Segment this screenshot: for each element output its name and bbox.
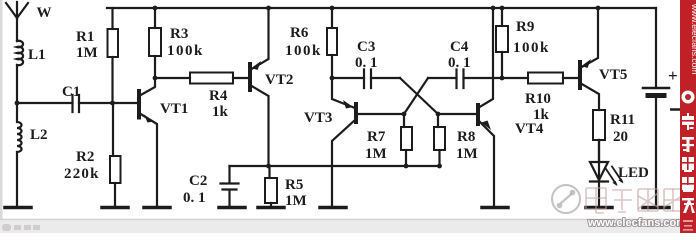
svg-text:R4: R4	[209, 88, 228, 104]
capacitor C3	[332, 70, 400, 89]
svg-text:L1: L1	[28, 47, 46, 63]
svg-text:R3: R3	[170, 26, 188, 42]
svg-text:+: +	[668, 66, 678, 85]
transistor VT4	[438, 8, 494, 207]
svg-text:C1: C1	[62, 84, 80, 100]
node VT5 emitter at rail	[596, 6, 601, 11]
svg-text:0. 1: 0. 1	[183, 190, 206, 206]
ground tick under R5	[258, 206, 284, 210]
svg-text:1M: 1M	[365, 146, 387, 162]
watermark strip bottom small marks	[683, 220, 693, 231]
svg-text:0. 1: 0. 1	[448, 55, 471, 71]
resistor R4 1k	[155, 73, 250, 84]
svg-text:C4: C4	[450, 39, 469, 55]
node R1 R2 bias junction	[110, 101, 115, 106]
svg-text:VT2: VT2	[265, 72, 293, 88]
faint watermark big characters (pseudo CJK outlines)	[586, 188, 696, 213]
capacitor C4	[428, 70, 502, 89]
LED emission arrows	[606, 167, 624, 187]
svg-text:W: W	[37, 5, 52, 21]
watermark red strip	[680, 0, 696, 233]
svg-text:R9: R9	[516, 19, 534, 35]
ground tick under VT3	[320, 206, 346, 210]
capacitor C1	[73, 95, 80, 112]
ground tick under L2	[5, 206, 31, 210]
svg-text:R6: R6	[290, 25, 309, 41]
node VT4 base	[436, 112, 441, 117]
svg-text:R2: R2	[76, 149, 94, 165]
svg-text:100k: 100k	[285, 43, 322, 59]
resistor R2 220k	[110, 103, 121, 207]
svg-text:220k: 220k	[64, 166, 100, 182]
svg-text:1k: 1k	[533, 107, 550, 123]
svg-text:VT4: VT4	[515, 121, 544, 137]
transistor VT1	[139, 78, 157, 207]
svg-text:0. 1: 0. 1	[355, 55, 378, 71]
antenna W	[6, 2, 28, 41]
svg-text:R7: R7	[367, 129, 386, 145]
svg-text:R8: R8	[457, 129, 475, 145]
ground tick under C2	[219, 206, 245, 210]
svg-text:R5: R5	[285, 177, 303, 193]
svg-text:VT3: VT3	[304, 110, 332, 126]
svg-text:1M: 1M	[456, 146, 478, 162]
faint bottom-left scan marks	[2, 224, 40, 231]
transistor VT5	[580, 8, 599, 110]
svg-text:100k: 100k	[513, 40, 550, 56]
ground tick under VT4 emitter	[482, 206, 508, 210]
svg-text:R11: R11	[610, 112, 635, 128]
node antenna junction	[15, 101, 20, 106]
node VT3 base	[402, 112, 407, 117]
node VT4 collector at rail	[491, 6, 496, 11]
scan left edge shading	[0, 0, 3, 233]
resistor R10 1k	[502, 73, 580, 84]
watermark strip logo	[682, 91, 695, 104]
wire collector bus y166	[230, 165, 440, 167]
scan bottom band	[0, 220, 696, 234]
wire C1 to VT1 base	[79, 102, 139, 104]
watermark strip chinese characters (vector pseudo glyphs)	[682, 113, 695, 213]
inductor L1	[17, 41, 23, 65]
ground tick under R2	[102, 206, 128, 210]
ground tick under LED	[586, 206, 612, 210]
resistor R9 100k	[496, 6, 508, 81]
resistor R8 1M	[434, 114, 445, 168]
svg-text:C2: C2	[189, 173, 207, 189]
svg-text:LED: LED	[618, 165, 649, 181]
resistor R5 1M	[265, 164, 277, 207]
node VT2 emitter at rail	[266, 6, 271, 11]
faint watermark logo circle	[552, 185, 580, 213]
wire junction to C1	[17, 102, 73, 104]
resistor R1 1M	[108, 8, 119, 103]
LED diode	[590, 140, 608, 207]
svg-text:1k: 1k	[212, 104, 229, 120]
svg-text:20: 20	[613, 129, 628, 145]
wire L1 to junction	[16, 65, 18, 103]
wire C3 to VT4 base diagonal	[400, 78, 438, 114]
transistor VT2	[250, 8, 269, 166]
capacitor C2	[221, 166, 239, 207]
svg-text:R10: R10	[525, 91, 551, 107]
wire L2 to ground	[16, 152, 18, 207]
svg-text:L2: L2	[30, 127, 48, 143]
battery B	[643, 8, 669, 207]
svg-text:R1: R1	[76, 29, 94, 45]
label battery minus	[670, 108, 683, 111]
resistor R6 100k	[327, 6, 337, 81]
svg-text:1M: 1M	[76, 45, 98, 61]
svg-text:www.elecfans.com: www.elecfans.com	[690, 3, 696, 74]
resistor R11 20	[593, 110, 605, 162]
ground tick under battery	[643, 206, 669, 210]
svg-text:VT1: VT1	[160, 101, 188, 117]
resistor R7 1M	[401, 114, 412, 168]
svg-text:1M: 1M	[285, 193, 307, 209]
svg-text:VT5: VT5	[599, 67, 627, 83]
inductor L2	[17, 103, 22, 152]
wire top supply rail	[107, 7, 656, 9]
svg-text:C3: C3	[357, 39, 375, 55]
wire C4 to VT3 base diagonal	[404, 78, 428, 114]
resistor R3 100k	[149, 6, 161, 81]
svg-text:www.elecfans.com: www.elecfans.com	[587, 217, 686, 229]
transistor VT3	[332, 78, 404, 207]
svg-text:100k: 100k	[167, 43, 204, 59]
ground tick under VT1 emitter	[144, 206, 170, 210]
